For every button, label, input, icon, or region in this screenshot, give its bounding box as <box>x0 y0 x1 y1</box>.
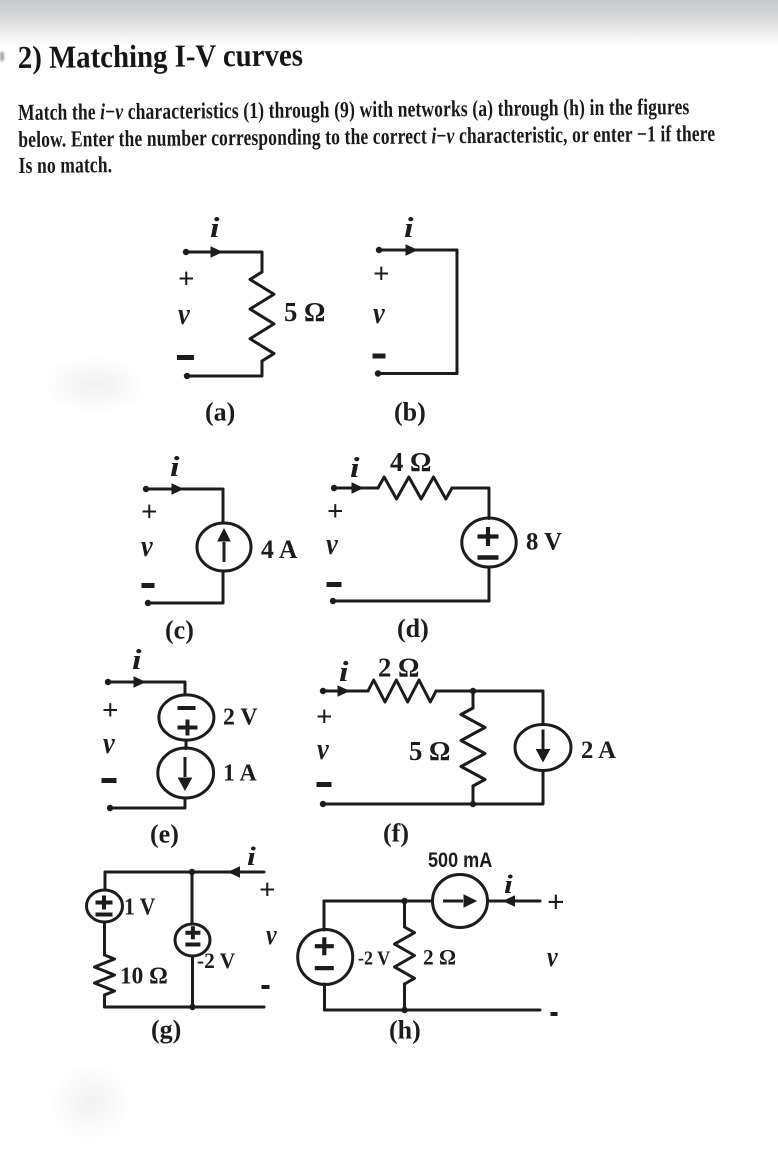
plus inside -2V source (h) <box>315 937 334 955</box>
plus inside 8V source (d) <box>478 527 499 546</box>
svg-text:-2 V: -2 V <box>358 948 390 970</box>
terminal dot (f) bottom <box>320 801 326 807</box>
label minus (g) <box>262 985 270 989</box>
svg-text:v: v <box>326 527 339 561</box>
circuit (h) bottom wire <box>325 1009 541 1012</box>
svg-text:1 V: 1 V <box>124 893 156 919</box>
resistor 10 ohm (g) <box>95 955 115 995</box>
svg-text:v: v <box>103 726 116 760</box>
junction dot (g) top <box>189 869 195 875</box>
svg-text:v: v <box>317 732 330 766</box>
current arrow (h) pointing left <box>503 895 516 907</box>
problem statement paragraph <box>18 94 716 180</box>
circuit (g) top wire with left branch <box>105 872 264 890</box>
voltage source -2V circle (g) <box>175 924 210 956</box>
faint scan smudge bottom-left <box>45 1060 135 1145</box>
terminal dot (b) bottom <box>375 370 381 376</box>
wire (g) left bottom <box>103 995 106 1007</box>
svg-text:2 Ω: 2 Ω <box>378 652 419 682</box>
svg-text:v: v <box>373 296 386 330</box>
circuit (g) middle branch <box>191 872 194 924</box>
svg-text:i: i <box>247 843 256 872</box>
circuit (c) top wire <box>146 489 223 523</box>
circuit (h) wire to + terminal <box>488 900 541 903</box>
terminal dot (d) top <box>331 485 337 491</box>
svg-text:+: + <box>547 884 565 919</box>
resistor 2 ohm (h) <box>395 927 415 984</box>
resistor 4 ohm (d) <box>378 477 452 499</box>
terminal dot (c) top <box>143 486 149 492</box>
junction dot (h) top <box>401 898 407 904</box>
svg-text:(g): (g) <box>151 1015 181 1044</box>
resistor 5 ohm (a) <box>250 272 274 361</box>
svg-text:i: i <box>170 451 180 482</box>
svg-text:i: i <box>210 212 220 243</box>
plus inside -2V source (g) <box>185 926 200 939</box>
resistor 5 ohm (f) <box>461 708 485 786</box>
top scan gradient <box>0 0 778 46</box>
minus inside 1V source (g) <box>96 913 113 917</box>
resistor 2 ohm (f) <box>368 680 436 702</box>
svg-text:+: + <box>178 263 195 295</box>
voltage source 8V circle (d) <box>462 518 516 567</box>
svg-text:2 V: 2 V <box>223 703 258 730</box>
svg-text:10 Ω: 10 Ω <box>120 963 168 989</box>
terminal dot (a) bottom <box>184 373 190 379</box>
circuit (e) top wire <box>108 682 185 695</box>
circuit (d) top wire left <box>334 487 378 490</box>
junction dot (h) bottom <box>401 1007 407 1013</box>
svg-text:4 Ω: 4 Ω <box>390 447 431 477</box>
circuit (h) left branch <box>323 901 326 930</box>
voltage source 1V circle (g) <box>87 890 123 922</box>
arrow inside 1A source (e) pointing down <box>184 757 187 777</box>
current source 2A circle (f) <box>515 725 571 771</box>
circuit (a) top wire <box>186 252 262 272</box>
terminal dot (a) top <box>183 249 189 255</box>
current arrow (b) <box>406 244 419 256</box>
terminal dot (f) top <box>320 688 326 694</box>
circuit (h) top wire <box>324 900 433 903</box>
current arrow (a) <box>211 246 224 258</box>
svg-text:2 A: 2 A <box>581 737 616 764</box>
svg-text:v: v <box>141 529 154 563</box>
junction dot (f) top <box>470 688 476 694</box>
plus inside 2V source (e) <box>178 720 198 736</box>
wire (h) left bottom <box>323 984 326 1010</box>
svg-text:4 A: 4 A <box>261 535 298 564</box>
wire 5ohm branch top (f) <box>472 691 475 708</box>
svg-text:8 V: 8 V <box>526 528 562 555</box>
label minus (a) <box>177 355 194 360</box>
wire (g) left mid <box>103 922 106 955</box>
arrow inside 500mA source (h) pointing right <box>443 900 463 903</box>
current source 1A circle (e) <box>158 748 214 798</box>
minus inside -2V source (g) <box>185 943 200 947</box>
terminal dot (d) bottom <box>330 598 336 604</box>
minus inside 2V source (e) <box>178 706 196 710</box>
faint mark at left page edge <box>0 52 4 61</box>
terminal dot (c) bottom <box>145 600 151 606</box>
minus inside -2V source (h) <box>315 966 334 970</box>
junction dot (f) bottom <box>470 801 476 807</box>
circuit (d) bottom wire <box>333 567 489 601</box>
circuit (e) bottom wire <box>110 798 185 808</box>
svg-text:+: + <box>327 496 344 528</box>
svg-text:+: + <box>141 496 158 528</box>
wire (g) middle bottom <box>191 956 194 1007</box>
svg-text:i: i <box>132 644 142 675</box>
svg-text:5 Ω: 5 Ω <box>409 736 450 766</box>
svg-text:+: + <box>316 701 333 733</box>
label minus (f) <box>317 782 332 787</box>
wire (h) 2ohm bottom <box>403 984 406 1010</box>
current arrow (d) <box>352 482 365 494</box>
faint scan smudge left of circuit (a) <box>40 355 150 415</box>
terminal dot (e) bottom <box>107 805 113 811</box>
circuit (g) bottom wire <box>105 1006 264 1009</box>
circuit (f) top wire to sources <box>436 691 543 723</box>
svg-text:v: v <box>547 941 558 972</box>
svg-text:(c): (c) <box>165 616 194 645</box>
svg-text:(d): (d) <box>397 614 429 643</box>
circuit (b) short-circuit loop wire <box>378 250 457 374</box>
heading: 2) Matching I-V curves <box>18 37 303 76</box>
terminal dot (b) top <box>376 247 382 253</box>
junction dot (g) bottom <box>189 1004 195 1010</box>
svg-text:v: v <box>178 297 191 331</box>
svg-text:(h): (h) <box>389 1016 421 1045</box>
label minus (d) <box>327 582 342 587</box>
terminal dot (e) top <box>105 679 111 685</box>
circuit (f) bottom wire <box>323 773 543 805</box>
svg-text:i: i <box>404 212 414 243</box>
minus inside 8V source (d) <box>478 555 499 560</box>
circuit (d) top wire right <box>452 488 489 519</box>
label minus (b) <box>373 354 386 359</box>
wire 5ohm branch bottom (f) <box>472 786 475 804</box>
circuit (a) bottom wire <box>187 361 262 376</box>
circuit (h) 2ohm branch top <box>403 901 406 927</box>
label minus (c) <box>142 583 155 588</box>
voltage source 2V circle (e) <box>159 695 214 740</box>
svg-text:+: + <box>373 258 390 290</box>
current source 4A circle (c) <box>197 523 251 571</box>
svg-text:(e): (e) <box>150 820 179 849</box>
svg-text:i: i <box>339 656 349 687</box>
svg-text:(f): (f) <box>383 819 409 848</box>
plus inside 1V source (g) <box>96 896 113 910</box>
current arrow (c) <box>172 483 185 495</box>
circuit (c) bottom wire <box>148 571 223 603</box>
current arrow (g) pointing left <box>228 866 241 878</box>
wire between sources (e) <box>185 740 188 749</box>
current arrow (e) <box>134 676 147 688</box>
circuit (f) top wire left <box>323 690 368 693</box>
svg-text:v: v <box>266 919 277 950</box>
arrow inside 2A source (f) pointing down <box>542 730 545 750</box>
arrow inside 4A source (c) pointing up <box>223 542 226 562</box>
svg-text:500 mA: 500 mA <box>428 849 492 873</box>
label minus (e) <box>102 778 117 783</box>
svg-text:i: i <box>504 871 513 900</box>
svg-text:(b): (b) <box>394 398 426 427</box>
svg-text:1 A: 1 A <box>223 759 257 786</box>
svg-text:+: + <box>259 874 276 906</box>
svg-text:2 Ω: 2 Ω <box>423 945 456 969</box>
label minus (h) <box>551 1012 558 1016</box>
current arrow (f) <box>338 685 351 697</box>
svg-text:5 Ω: 5 Ω <box>284 297 325 327</box>
voltage source -2V circle (h) <box>298 930 353 985</box>
svg-text:i: i <box>350 452 360 483</box>
svg-text:(a): (a) <box>205 398 235 427</box>
svg-text:-2 V: -2 V <box>197 949 235 973</box>
current source 500mA circle (h) <box>433 875 488 928</box>
svg-text:+: + <box>102 695 119 727</box>
